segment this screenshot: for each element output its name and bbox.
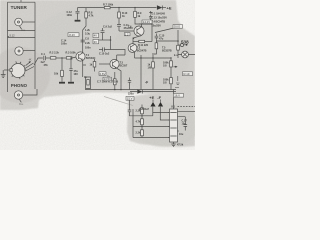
wire: T4 base from x119 line xyxy=(119,30,134,32)
voltage box 0.6V xyxy=(99,72,106,76)
wire: dashed link top right xyxy=(178,106,196,108)
svg-text:D.1 1N4148: D.1 1N4148 xyxy=(152,13,166,16)
svg-text:2.2k/4u7: 2.2k/4u7 xyxy=(139,108,149,111)
svg-text:+E: +E xyxy=(149,95,154,100)
ground: under C12 xyxy=(75,20,81,22)
node: junction at x62 xyxy=(61,57,62,58)
scan grain xyxy=(0,0,195,150)
wire: x153 dropper with R13 xyxy=(152,55,154,62)
wire: J3 to bus riser xyxy=(23,89,37,95)
svg-text:BC549C: BC549C xyxy=(86,57,96,60)
resistor R4 to ground xyxy=(61,58,63,70)
wire: T2 emitter dropper xyxy=(134,52,136,58)
svg-text:3.3u: 3.3u xyxy=(85,33,90,36)
wire: tuner section bottom divider xyxy=(8,30,36,32)
page background xyxy=(0,0,195,150)
PSU: drop from +E triangle xyxy=(153,107,170,113)
svg-text:4V: 4V xyxy=(94,34,98,38)
ground: under U1 xyxy=(173,142,175,144)
svg-text:-F: -F xyxy=(157,95,161,100)
wire: T4 emitter to T2 collector xyxy=(133,36,142,44)
svg-text:R.7 100k: R.7 100k xyxy=(103,3,114,6)
capacitor C11 electrolytic xyxy=(117,25,121,32)
svg-text:10k: 10k xyxy=(54,73,59,76)
svg-text:DUO: DUO xyxy=(174,25,181,29)
wire: mid coupling network xyxy=(99,39,111,41)
svg-text:k.o: k.o xyxy=(174,54,178,57)
capacitor C15 electrolytic output xyxy=(155,34,159,43)
transistor T4 BC547B xyxy=(134,26,144,36)
wire: signal line y58 from switch to T1 base xyxy=(34,58,43,65)
IC U1 regulator box xyxy=(170,109,178,142)
node: rung junctions xyxy=(141,115,142,116)
resistor R2 series xyxy=(50,57,56,59)
voltage box 1.2V xyxy=(124,32,130,36)
label box DUO top right xyxy=(173,25,183,29)
wire: T3 base line xyxy=(99,63,110,65)
resistor R11 220 xyxy=(139,40,145,42)
svg-text:C.1: C.1 xyxy=(41,53,46,56)
resistor R22 xyxy=(141,130,144,136)
svg-text:10u/25V: 10u/25V xyxy=(152,24,162,27)
switch S1 contact marks xyxy=(12,61,26,79)
wire: antenna stub above tuner box xyxy=(20,0,22,2)
wire: second section top divider xyxy=(8,37,36,39)
svg-text:U.1: U.1 xyxy=(171,106,176,109)
svg-text:TUNER: TUNER xyxy=(11,5,28,10)
connector J4 output small xyxy=(180,43,183,46)
svg-text:1/8: 1/8 xyxy=(163,64,167,67)
svg-text:R.2 2.2k: R.2 2.2k xyxy=(50,52,60,55)
wire: x141 dropper mid band xyxy=(140,55,142,90)
svg-text:100n: 100n xyxy=(67,14,73,17)
wire: input box outline left edge xyxy=(7,2,9,92)
svg-text:BC557B: BC557B xyxy=(162,49,172,52)
wire: input box outline right edge xyxy=(34,2,36,89)
svg-text:4.7k: 4.7k xyxy=(89,14,94,17)
resistor R9 dropper xyxy=(134,8,136,12)
wire: ladder rungs xyxy=(133,116,170,138)
svg-text:10u: 10u xyxy=(182,122,187,125)
connector J5 output jack xyxy=(182,51,189,58)
node: junction at x71 xyxy=(70,57,71,58)
svg-text:C.9 2u2: C.9 2u2 xyxy=(103,26,113,29)
wire: J1 to bus xyxy=(22,21,35,23)
svg-text:0.6V: 0.6V xyxy=(100,72,106,76)
svg-text:100n: 100n xyxy=(61,42,67,45)
capacitor C2 to ground xyxy=(69,58,72,82)
svg-text:16.V: 16.V xyxy=(174,94,180,98)
ground: switch ground symbol xyxy=(1,70,6,78)
connector J3 phono jack xyxy=(14,91,22,99)
transistor T3 BC557 xyxy=(110,59,119,68)
svg-text:2.2k: 2.2k xyxy=(85,42,90,45)
wire: T3 emitter to x121 dropper xyxy=(117,68,121,89)
voltage box 14.5V xyxy=(103,77,111,81)
power arrow -F (filled) xyxy=(158,102,163,107)
capacitor C1 coupling xyxy=(44,56,46,60)
svg-text:T.4 BC547B: T.4 BC547B xyxy=(152,21,166,24)
svg-text:47.5k: 47.5k xyxy=(177,144,184,147)
resistor R7 horizontal on rail xyxy=(104,7,110,9)
wire: x152.8 down to rung xyxy=(152,113,154,116)
PSU: drop from -F triangle xyxy=(160,107,169,120)
svg-text:100n: 100n xyxy=(85,47,91,50)
svg-text:-F: -F xyxy=(145,81,148,85)
wire: T2 collector node to R11 xyxy=(133,41,139,43)
capacitor C14 on collector line xyxy=(81,40,85,42)
resistor R8 rail dropper xyxy=(85,8,87,12)
capacitor C9 xyxy=(101,28,105,40)
svg-text:1.2: 1.2 xyxy=(125,32,129,36)
svg-text:C.8: C.8 xyxy=(85,38,90,41)
wire: switch left to ground xyxy=(4,69,10,71)
diode D1 symbol glyph xyxy=(149,11,152,20)
transistor T1 BC549C xyxy=(76,52,85,61)
voltage box right strip xyxy=(174,94,184,98)
svg-text:1/8: 1/8 xyxy=(148,66,152,69)
node: junction x152 y24 xyxy=(151,23,152,24)
voltage box left lower xyxy=(93,39,99,44)
ground: J3 shield arrow xyxy=(19,99,21,102)
svg-text:4.7k: 4.7k xyxy=(136,121,141,124)
node: rail junction x135 xyxy=(134,7,135,8)
svg-text:8.2V: 8.2V xyxy=(69,33,75,37)
power arrow +E (filled) xyxy=(150,102,155,107)
voltage box 14.2V xyxy=(142,20,152,24)
svg-text:220u: 220u xyxy=(128,93,134,96)
ground: J1 shield arrow xyxy=(20,26,22,29)
wire: T3 collector up xyxy=(117,55,125,60)
resistor R13 body above xyxy=(152,68,154,90)
wire: y58 top link to output xyxy=(135,57,172,59)
voltage box psu 15V xyxy=(126,96,134,100)
wire: R3 to T1 base xyxy=(72,57,76,58)
svg-text:47u: 47u xyxy=(159,37,164,40)
svg-text:14.5V: 14.5V xyxy=(104,77,111,81)
switch S1 wiper pin left xyxy=(10,69,12,72)
svg-text:1/8: 1/8 xyxy=(163,81,167,84)
voltage box 8.2V xyxy=(68,33,79,37)
connector J1 tuner jack xyxy=(15,18,23,26)
wire: rail stub to 16V box xyxy=(173,90,175,110)
svg-text:-K: -K xyxy=(29,58,32,62)
diode D2 on rail (points left) xyxy=(161,6,163,10)
wire: output arrow right xyxy=(174,66,178,68)
wire: ground rail y89.5 xyxy=(85,89,176,91)
wire: to output jacks xyxy=(178,44,181,46)
wire: T4 collector to rail node xyxy=(139,24,152,27)
feedback loop resistor R6 xyxy=(86,77,91,89)
svg-text:R.3 100k: R.3 100k xyxy=(66,52,77,55)
resistor R15 body xyxy=(170,84,172,90)
svg-text:2.2k: 2.2k xyxy=(136,132,141,135)
resistor R20 xyxy=(141,105,143,108)
wire: arrow to record output K xyxy=(26,62,31,66)
node: junction x178 y41 xyxy=(177,40,179,42)
resistor R3 series xyxy=(66,57,72,59)
svg-text:14.2V: 14.2V xyxy=(143,20,150,24)
ground: under C2 xyxy=(68,82,74,84)
label box 8ohm right edge xyxy=(183,72,193,76)
capacitor C10 on y49.5 xyxy=(99,47,111,51)
node: junction x110.5 y40 xyxy=(110,39,112,41)
wire: T1 collector riser xyxy=(82,44,84,53)
node: junction x115 on rail xyxy=(114,89,116,91)
svg-text:PHONO: PHONO xyxy=(11,83,28,88)
wire: stub below R19 xyxy=(175,76,180,88)
svg-text:C.13 10u/25V: C.13 10u/25V xyxy=(152,17,168,20)
wire: J2 to bus xyxy=(23,50,35,52)
svg-text:10u: 10u xyxy=(179,133,184,136)
svg-text:BC547B: BC547B xyxy=(137,49,147,52)
wire: callout diagonal to DUO box xyxy=(155,28,176,33)
svg-text:h.s.: h.s. xyxy=(20,103,24,106)
resistor R14 body xyxy=(170,67,172,78)
svg-text:15.V: 15.V xyxy=(127,97,133,101)
wire: U1 right outputs xyxy=(179,112,195,125)
resistor R12 below T3 xyxy=(114,72,116,79)
resistor R21 xyxy=(141,119,144,125)
scanned paper gray region (main schematic area) xyxy=(0,0,200,147)
node: junction x121 on rail xyxy=(120,89,122,91)
node: junction tick on left edge y37 xyxy=(8,36,10,38)
wire: output line y41 xyxy=(156,30,178,58)
transistor T2 BC547B xyxy=(128,44,137,53)
wire: faint diagonal scan edge into psu xyxy=(104,97,133,106)
svg-text:+E: +E xyxy=(167,5,172,10)
svg-text:BC557: BC557 xyxy=(120,64,128,67)
IC U1 pin ticks xyxy=(168,112,178,138)
ground: under R4 xyxy=(59,82,65,84)
node: junctions on y58 xyxy=(140,57,141,58)
connector J2 aux jack xyxy=(15,47,23,55)
svg-text:5.12: 5.12 xyxy=(10,33,16,37)
capacitor C18 electrolytic psu xyxy=(128,100,133,116)
resistor R10 dropper xyxy=(118,8,120,12)
IC U1 inner rungs xyxy=(170,113,176,137)
wire: switch output diagonals to preamp input xyxy=(25,63,34,71)
wire: T1 emitter dropper xyxy=(83,60,86,77)
svg-text:R.19: R.19 xyxy=(184,72,190,76)
svg-text:538: 538 xyxy=(181,39,189,44)
diode D3 on -F line (points left) xyxy=(141,90,143,94)
wire: input box top edge xyxy=(8,1,36,3)
svg-text:3V: 3V xyxy=(94,40,98,44)
PSU: ladder left bus xyxy=(132,109,134,138)
wire: top supply rail y7.6 xyxy=(78,7,157,9)
wire: x152 riser xyxy=(151,24,153,42)
wire: stubs above arrows xyxy=(153,100,161,102)
svg-text:16V: 16V xyxy=(74,73,79,76)
wire: y50 to x125 riser xyxy=(111,50,126,56)
svg-text:C.10 2u2: C.10 2u2 xyxy=(99,53,110,56)
voltage box left upper xyxy=(93,33,99,38)
capacitor C12 rail decoupling xyxy=(76,8,80,20)
svg-text:h.s.: h.s. xyxy=(22,29,26,32)
resistor R18 small xyxy=(177,45,180,50)
capacitor C16 electrolytic near rail xyxy=(128,78,131,90)
resistor R16 xyxy=(155,43,158,49)
capacitor C17 xyxy=(184,125,188,131)
switch S1 rotary selector xyxy=(11,64,25,78)
wire: x171 dropper with R14 R15 xyxy=(170,58,172,61)
node: rail junction x119 xyxy=(118,7,119,8)
resistor R5 dropper right of T1 xyxy=(94,59,96,62)
svg-text:47k: 47k xyxy=(44,64,49,67)
